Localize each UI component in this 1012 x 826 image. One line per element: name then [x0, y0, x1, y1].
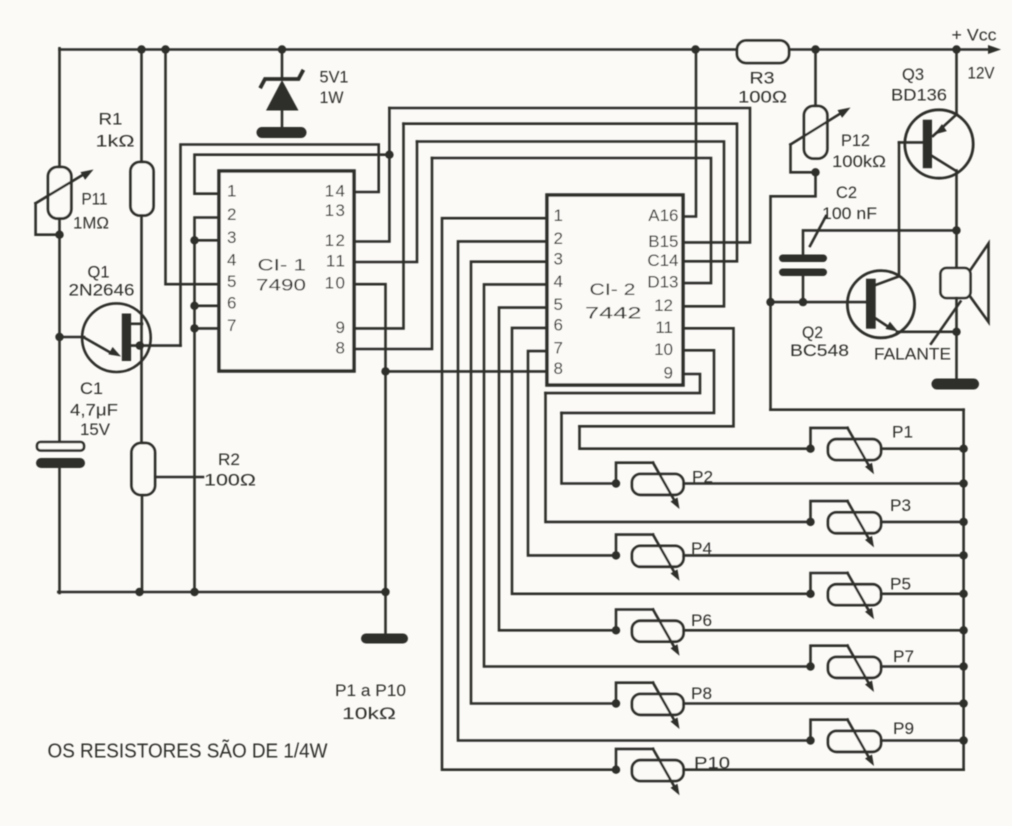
svg-text:100kΩ: 100kΩ: [832, 153, 886, 171]
Q1 bar: [122, 314, 131, 362]
Q2 bar: [866, 279, 876, 329]
P2 wiper arrow: [653, 463, 680, 509]
label note: [48, 739, 328, 763]
svg-text:10kΩ: 10kΩ: [342, 705, 396, 723]
svg-text:P5: P5: [890, 576, 911, 594]
P9 wiper loop: [811, 720, 848, 741]
P11 wiper arrow: [36, 170, 94, 204]
label CI-1: [258, 256, 307, 274]
svg-text:7442: 7442: [585, 305, 642, 323]
junction rail-P12: [811, 45, 819, 53]
ground symbol G1: [361, 634, 408, 644]
junction gnd-pins: [190, 588, 198, 596]
C2 pointer: [810, 216, 826, 246]
wire CI1 pin11 riser: [354, 142, 417, 263]
junction P9 wiper: [806, 736, 814, 744]
wire R1 top: [140, 50, 143, 163]
wire right bus: [962, 410, 965, 770]
wire A16 vcc: [683, 50, 696, 217]
label 2N2646: [69, 282, 135, 300]
label P3: [890, 497, 911, 515]
svg-text:R1: R1: [99, 110, 123, 128]
svg-text:P8: P8: [691, 685, 712, 703]
label 10k: [342, 705, 396, 723]
junction P6 wiper: [612, 626, 620, 634]
svg-text:5: 5: [227, 272, 236, 291]
resistor R3: [737, 41, 789, 64]
junction pin3: [190, 236, 198, 244]
svg-text:4: 4: [554, 272, 563, 291]
svg-text:D13: D13: [647, 273, 678, 292]
svg-text:3: 3: [227, 228, 236, 247]
label 12V: [968, 65, 995, 83]
svg-text:5V1: 5V1: [320, 68, 349, 86]
label BC548: [790, 342, 849, 360]
wire P4 input: [528, 351, 616, 555]
wire P7 input: [484, 284, 811, 666]
junction emitter-spkr: [952, 328, 960, 336]
label C1 value: [70, 401, 118, 419]
potentiometer P8: [632, 694, 684, 715]
wire P1 input: [580, 426, 811, 448]
Q1 B1 stub: [131, 344, 181, 347]
wire P10 input: [442, 218, 616, 770]
svg-text:11: 11: [655, 318, 673, 337]
P5 wiper loop: [811, 573, 848, 594]
svg-text:5: 5: [554, 295, 563, 314]
label CI-2: [590, 281, 636, 299]
svg-text:4,7μF: 4,7μF: [70, 401, 118, 419]
wire P7 out: [881, 665, 964, 668]
capacitor C1 plate-: [36, 458, 85, 468]
Q2 base wire: [771, 301, 867, 304]
Q1 emitter wire: [60, 336, 85, 339]
junction bus P7: [959, 662, 967, 670]
wire spkr bottom: [955, 298, 958, 379]
wire bus feed: [771, 408, 964, 411]
svg-text:9: 9: [664, 364, 673, 383]
label Q2: [802, 324, 823, 342]
resistor R2: [132, 443, 156, 495]
junction P1 wiper: [806, 445, 814, 453]
svg-text:10: 10: [654, 340, 673, 359]
label P9: [893, 720, 914, 738]
junction rail-R1: [137, 45, 145, 53]
P11 wiper loop: [36, 203, 60, 234]
label R1 value: [96, 132, 135, 150]
transistor Q2 circle: [847, 271, 914, 338]
wire CI1 pin6: [195, 304, 220, 307]
svg-text:CI- 2: CI- 2: [590, 281, 636, 299]
svg-text:11: 11: [326, 252, 347, 271]
svg-text:12: 12: [654, 296, 673, 315]
label P1: [892, 424, 913, 442]
wire left rail: [58, 48, 61, 593]
wire P9 input: [458, 241, 811, 740]
wire P5 out: [881, 592, 964, 595]
junction P2 wiper: [612, 479, 620, 487]
svg-text:FALANTE: FALANTE: [874, 346, 951, 364]
wire CI1 pin8 riser: [354, 158, 432, 349]
speaker LS1 coil: [941, 268, 971, 298]
label 7490: [256, 277, 306, 295]
svg-text:9: 9: [336, 318, 347, 337]
svg-text:2: 2: [554, 229, 563, 248]
junction P4 wiper: [612, 551, 620, 559]
Q2 emitter arrow: [876, 319, 898, 332]
transistor Q3 circle: [905, 110, 973, 178]
label P8: [691, 685, 712, 703]
CI-2 right pin labels: [647, 206, 678, 383]
Q3 base riser: [898, 142, 901, 276]
wire P1 out: [881, 447, 964, 450]
svg-text:7490: 7490: [256, 277, 306, 295]
junction pin10-pin8ci2: [381, 367, 389, 375]
label P12 value: [832, 153, 886, 171]
wire spkr top: [955, 230, 958, 268]
zener D1 anode: [266, 80, 299, 111]
P3 wiper loop: [811, 501, 848, 522]
junction bus P4: [959, 551, 967, 559]
wire CI1 pin14 loop: [181, 145, 379, 346]
junction P8 wiper: [612, 699, 620, 707]
P1 wiper loop: [811, 428, 848, 449]
svg-text:P3: P3: [890, 497, 911, 515]
svg-text:8: 8: [554, 359, 563, 378]
wire C2 bottom lead: [802, 276, 805, 302]
P4 wiper loop: [616, 535, 653, 556]
wire P9 out: [881, 739, 964, 742]
transistor Q1 circle: [82, 303, 151, 372]
junction left-P11: [55, 231, 63, 239]
svg-text:1: 1: [554, 206, 563, 225]
label Q1: [88, 264, 110, 282]
junction bus P1: [959, 445, 967, 453]
svg-text:C1: C1: [80, 380, 103, 398]
P10 wiper arrow: [653, 749, 680, 795]
potentiometer P4: [632, 546, 684, 567]
svg-text:P11: P11: [82, 191, 108, 209]
wire P8 input: [471, 262, 616, 704]
wire CI1 pin12 riser: [354, 108, 389, 242]
svg-text:12: 12: [325, 231, 347, 250]
junction P10 wiper: [612, 766, 620, 774]
svg-text:A16: A16: [648, 206, 678, 225]
junction P12 out: [811, 168, 819, 176]
junction P5 wiper: [806, 590, 814, 598]
svg-text:10: 10: [325, 274, 347, 293]
capacitor C2 plate2: [779, 269, 827, 277]
label FALANTE: [874, 346, 951, 364]
wire P3 out: [881, 521, 964, 524]
label R2: [218, 451, 240, 469]
label P1aP10: [335, 682, 406, 700]
junction rail-zener: [278, 45, 286, 53]
op-amp U2 CI-2 box: [547, 195, 683, 385]
svg-text:12V: 12V: [968, 65, 995, 83]
wire CI1 pin2-gnd: [195, 218, 220, 593]
P4 wiper arrow: [653, 535, 680, 581]
junction bus P9: [959, 736, 967, 744]
wire CI1 pin9 riser: [354, 124, 404, 329]
svg-text:Q2: Q2: [802, 324, 823, 342]
label P11 value: [73, 215, 109, 233]
svg-text:OS RESISTORES SÃO DE 1/4W: OS RESISTORES SÃO DE 1/4W: [48, 739, 328, 763]
P3 wiper arrow: [848, 501, 875, 547]
wire CI1 pin3: [195, 239, 220, 242]
svg-text:100Ω: 100Ω: [738, 89, 787, 107]
label P4: [691, 540, 712, 558]
P10 wiper loop: [616, 749, 653, 770]
zener ground blob: [257, 127, 307, 138]
P2 wiper loop: [616, 463, 653, 484]
Q3 emitter arrow: [933, 114, 957, 136]
P8 wiper loop: [616, 683, 653, 704]
wire CI1 pin1: [195, 155, 390, 194]
wire P6 input: [499, 308, 616, 631]
svg-text:R3: R3: [750, 70, 775, 88]
wire P12 to base: [771, 172, 816, 409]
label P7: [893, 648, 914, 666]
P7 wiper loop: [811, 646, 848, 667]
junction bus P3: [959, 518, 967, 526]
potentiometer P3: [828, 512, 881, 533]
junction rail-A16: [691, 45, 699, 53]
svg-text:C2: C2: [836, 184, 857, 202]
svg-text:P12: P12: [841, 132, 870, 150]
wire gnd stub: [384, 592, 387, 634]
svg-text:14: 14: [325, 182, 347, 201]
label R3 value: [738, 89, 787, 107]
CI-2 left pin numbers: [554, 206, 563, 378]
svg-text:BD136: BD136: [891, 87, 947, 105]
label R3: [750, 70, 775, 88]
svg-text:R2: R2: [218, 451, 240, 469]
label BD136: [891, 87, 947, 105]
svg-text:1MΩ: 1MΩ: [73, 215, 109, 233]
P12 wiper loop: [791, 145, 816, 173]
label 5V1: [320, 68, 349, 86]
svg-text:B15: B15: [648, 232, 678, 251]
wire CI1 pin7: [195, 327, 220, 330]
label 1W: [320, 89, 344, 107]
svg-text:P6: P6: [691, 612, 712, 630]
wire +Vcc rail: [60, 48, 991, 51]
wire zener top: [281, 50, 284, 78]
svg-text:2N2646: 2N2646: [69, 282, 135, 300]
wire CI1 pin5-vcc: [166, 50, 220, 285]
wire CI2 pin8 line: [386, 370, 548, 373]
svg-text:P1: P1: [892, 424, 913, 442]
wire C2 top lead: [803, 230, 957, 254]
wire P4 out: [684, 554, 964, 557]
ground symbol G2: [932, 379, 980, 390]
svg-text:6: 6: [227, 293, 236, 312]
potentiometer P7: [828, 657, 881, 678]
wire P6 out: [684, 629, 964, 632]
junction bus P6: [959, 626, 967, 634]
junction pin7: [190, 324, 198, 332]
label R1: [99, 110, 123, 128]
CI-1 left pin numbers: [227, 181, 236, 335]
label P10: [694, 755, 730, 773]
P8 wiper arrow: [653, 683, 680, 729]
wire pin9 dogleg: [546, 374, 701, 393]
svg-text:P2: P2: [692, 469, 713, 487]
svg-text:8: 8: [336, 339, 347, 358]
junction gnd-right: [381, 588, 389, 596]
resistor R1: [131, 162, 154, 216]
Q3 bar: [923, 120, 932, 169]
junction gnd-R2: [135, 588, 143, 596]
svg-text:1: 1: [227, 181, 236, 200]
svg-text:Q3: Q3: [902, 66, 924, 84]
svg-text:P4: P4: [691, 540, 712, 558]
wire pin10 dogleg: [562, 350, 715, 413]
P6 wiper loop: [616, 610, 653, 631]
junction bus P5: [959, 590, 967, 598]
svg-text:6: 6: [554, 316, 563, 335]
P12 wiper arrow: [791, 108, 851, 145]
junction P3 wiper: [806, 518, 814, 526]
svg-text:CI- 1: CI- 1: [258, 256, 307, 274]
label P12: [841, 132, 870, 150]
P7 wiper arrow: [848, 646, 875, 692]
junction coll-C2: [952, 226, 960, 234]
P5 wiper arrow: [848, 573, 875, 619]
junction bus P8: [959, 699, 967, 707]
svg-text:4: 4: [227, 251, 236, 270]
label C1: [80, 380, 103, 398]
label 7442: [585, 305, 642, 323]
label P2: [692, 469, 713, 487]
svg-text:3: 3: [554, 249, 563, 268]
junction left-Q1e: [55, 333, 63, 341]
svg-text:2: 2: [227, 205, 236, 224]
potentiometer P9: [828, 731, 881, 752]
wire loop4 D13: [432, 158, 711, 283]
svg-text:BC548: BC548: [790, 342, 849, 360]
potentiometer P10: [632, 760, 684, 781]
potentiometer P12: [804, 106, 827, 159]
wire Q3 emitter: [955, 50, 958, 115]
wire P2 input: [562, 413, 617, 484]
svg-text:7: 7: [227, 316, 236, 335]
label Q3: [902, 66, 924, 84]
label P5: [890, 576, 911, 594]
wire loop3 pin12b: [417, 142, 724, 307]
wire P8 out: [684, 702, 964, 705]
svg-text:100 nF: 100 nF: [822, 205, 877, 223]
svg-text:P1 a P10: P1 a P10: [335, 682, 406, 700]
svg-text:P9: P9: [893, 720, 914, 738]
label P11: [82, 191, 108, 209]
wire P10 out: [684, 768, 964, 771]
svg-text:P7: P7: [893, 648, 914, 666]
wire P3 input: [546, 393, 811, 522]
zener D1 cathode: [261, 72, 303, 87]
label +Vcc: [952, 27, 997, 45]
junction rail-pin5: [161, 45, 169, 53]
Q1 emitter arrow: [84, 338, 121, 357]
speaker LS1 cone: [971, 244, 989, 323]
wire P12 top: [814, 50, 817, 107]
wire R2 leader: [155, 476, 203, 479]
P1 wiper arrow: [848, 428, 875, 474]
wire Q3 coll down: [955, 171, 958, 231]
Q2 collector: [876, 276, 899, 285]
junction base node: [766, 298, 774, 306]
label C1 volts: [80, 421, 110, 439]
label P6: [691, 612, 712, 630]
wire pin11 dogleg: [580, 328, 734, 426]
junction pin1-pin12: [385, 151, 393, 159]
junction P7 wiper: [806, 662, 814, 670]
P9 wiper arrow: [848, 720, 875, 766]
label C2: [836, 184, 857, 202]
wire Q2 emitter out: [897, 330, 957, 333]
label R2 value: [204, 472, 256, 490]
wire zener bottom: [281, 110, 284, 128]
potentiometer P5: [828, 584, 881, 605]
Q3 base wire: [899, 141, 923, 144]
capacitor C1 plate+: [37, 442, 84, 451]
node Vcc arrow: [988, 45, 1001, 54]
CI-1 right pin numbers: [325, 182, 347, 358]
wire ground rail: [58, 591, 385, 594]
svg-text:100Ω: 100Ω: [204, 472, 256, 490]
wire P2 out: [684, 482, 964, 485]
junction bus P2: [959, 479, 967, 487]
svg-text:13: 13: [325, 201, 347, 220]
svg-text:7: 7: [554, 339, 563, 358]
svg-text:15V: 15V: [80, 421, 110, 439]
wire P5 input: [512, 328, 811, 594]
wire loop1 B15: [389, 108, 750, 242]
Q1 B2 stub: [131, 322, 142, 325]
Q3 collector: [932, 156, 956, 171]
wire CI1 pin10 down: [354, 284, 386, 592]
wire loop2 C14: [404, 124, 738, 262]
svg-text:Q1: Q1: [88, 264, 110, 282]
potentiometer P2: [632, 474, 684, 495]
svg-text:+ Vcc: + Vcc: [952, 27, 997, 45]
junction Q1 B1: [136, 341, 144, 349]
wire R2 bottom: [141, 495, 144, 592]
svg-text:C14: C14: [647, 251, 678, 270]
potentiometer P1: [828, 439, 881, 460]
potentiometer P6: [632, 621, 684, 642]
svg-text:1kΩ: 1kΩ: [96, 132, 135, 150]
FALANTE pointer: [931, 302, 961, 344]
capacitor C2 plate1: [779, 255, 827, 263]
P6 wiper arrow: [653, 610, 680, 656]
junction rail-Q3: [952, 45, 960, 53]
svg-text:1W: 1W: [320, 89, 344, 107]
svg-text:P10: P10: [694, 755, 730, 773]
potentiometer P11: [48, 167, 71, 219]
junction pin6: [190, 302, 198, 310]
label C2 value: [822, 205, 877, 223]
junction C2-base: [799, 298, 807, 306]
op-amp U1 CI-1 box: [219, 171, 354, 371]
wire R1-Q1-R2: [140, 216, 143, 444]
